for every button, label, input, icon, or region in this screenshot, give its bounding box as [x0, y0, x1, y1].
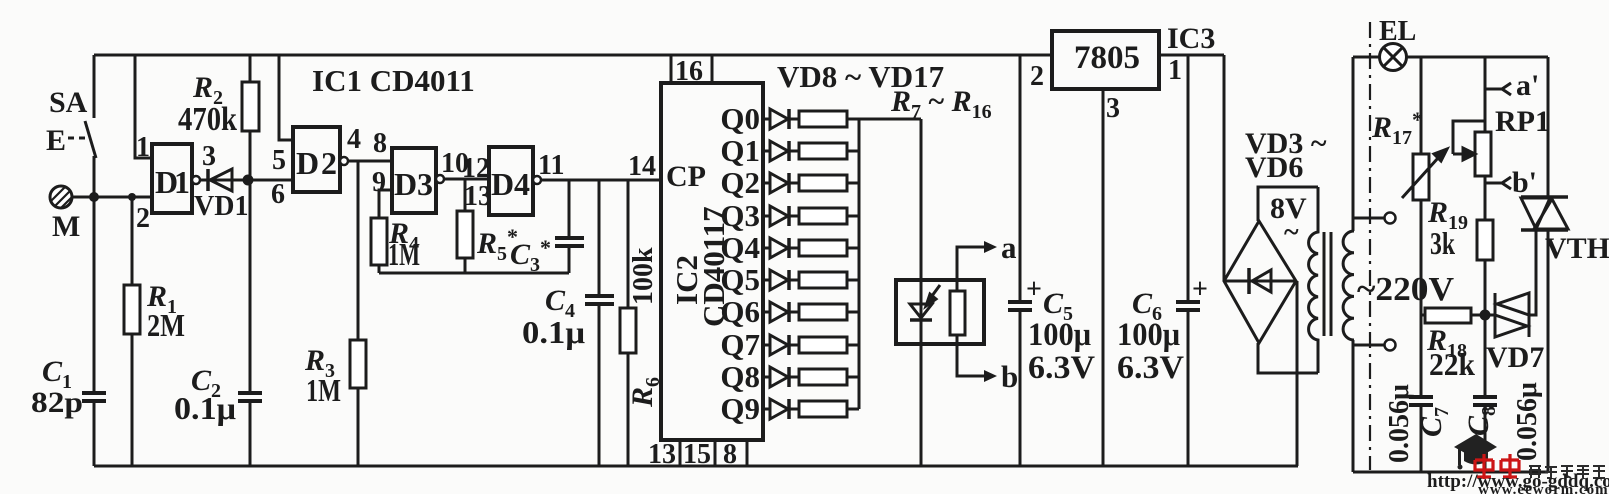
diode VD10 + resistor R9 row Q2	[763, 173, 859, 193]
wire: R17 bottom to R18 junction	[1420, 200, 1423, 397]
svg-text:VD1: VD1	[194, 191, 248, 222]
LED light arrow	[926, 285, 940, 306]
R17 adjust arrow	[1402, 149, 1447, 198]
wire: C6 column	[1187, 55, 1190, 302]
svg-text:~220V: ~220V	[1357, 271, 1454, 308]
wire: VTH column top	[1547, 57, 1550, 197]
gate D1	[152, 144, 192, 213]
wire: D2 pin6 from junction	[248, 179, 293, 182]
wire: C4 bottom	[598, 304, 601, 466]
opto photoresistor	[950, 291, 965, 335]
wire: E dashes	[68, 137, 86, 140]
svg-text:Q2: Q2	[720, 165, 760, 200]
svg-text:100k: 100k	[628, 247, 659, 305]
svg-text:100μ: 100μ	[1117, 317, 1180, 353]
wire: C4 stub	[598, 180, 601, 294]
wire: main bottom ground rail	[94, 465, 1298, 468]
capacitor C4	[585, 294, 614, 298]
svg-text:2M: 2M	[147, 307, 185, 343]
wire: R2 bottom to junction	[249, 131, 252, 180]
wire: R6 bottom	[627, 353, 630, 466]
diode VD16 + resistor R15 row Q8	[763, 367, 859, 387]
svg-text:4: 4	[347, 124, 361, 155]
svg-text:2: 2	[136, 203, 150, 234]
wire: bridge + output up to 5V line	[1223, 55, 1226, 281]
gate D3 output bubble	[436, 175, 444, 183]
diode VD8 + resistor R7 row Q0	[763, 109, 921, 129]
wire: RP1 bottom	[1484, 177, 1487, 220]
svg-text:3: 3	[202, 141, 216, 172]
RP1 wiper link	[1453, 121, 1485, 154]
terminal: plug top circle	[1385, 213, 1396, 224]
wire: VTH bottom	[1547, 230, 1550, 472]
wire: C7 bottom	[1420, 405, 1423, 472]
svg-text:6.3V: 6.3V	[1117, 350, 1184, 386]
wire: R1 bottom	[131, 334, 134, 466]
diode VD17 + resistor R16 row Q9	[763, 399, 859, 419]
wire: right section top rail	[1353, 56, 1548, 59]
resistor R17 (adjustable)	[1413, 154, 1429, 200]
svg-text:470k: 470k	[178, 101, 237, 138]
node: junction R18/VD7/C8	[1480, 310, 1491, 321]
svg-text:Q9: Q9	[720, 391, 760, 426]
resistor R4	[371, 218, 387, 265]
svg-text:CP: CP	[666, 160, 706, 193]
wire: D1 pin1 from VDD rail	[135, 55, 152, 158]
resistor R3	[350, 340, 366, 388]
wire: opto resistor bottom to b	[957, 335, 984, 376]
svg-text:b': b'	[1512, 166, 1537, 199]
gate D1 output bubble	[192, 176, 200, 184]
svg-text:1: 1	[136, 132, 150, 163]
svg-text:0.1μ: 0.1μ	[522, 314, 585, 350]
svg-text:SA: SA	[49, 86, 88, 119]
wire: R5 stub from D3-D4 wire	[464, 179, 467, 211]
capacitor C3 stub top	[568, 180, 571, 236]
wire: C3 bottom	[568, 246, 571, 273]
wire: C1 to ground rail	[93, 401, 96, 466]
wire: M to D1 pin2	[72, 196, 152, 199]
wire: junction down to C2	[249, 180, 252, 391]
svg-text:Q6: Q6	[720, 294, 760, 329]
bridge inner diode	[1224, 280, 1296, 283]
wire: C8 bottom	[1484, 405, 1487, 472]
svg-text:Q8: Q8	[720, 359, 760, 394]
resistor R1	[124, 285, 140, 334]
pin 15 stub	[714, 440, 717, 466]
svg-text:IC1 CD4011: IC1 CD4011	[312, 63, 475, 98]
resistor R18	[1421, 314, 1425, 317]
svg-text:a': a'	[1516, 69, 1539, 102]
switch SA blade	[85, 121, 96, 158]
op-amp IC2 CD40117 box	[661, 83, 763, 440]
diode VD14 + resistor R13 row Q6	[763, 302, 859, 322]
pin 13 stub	[679, 440, 682, 466]
gate D4	[489, 147, 533, 215]
wire: R6 stub	[627, 180, 630, 308]
bridge diamond	[1224, 221, 1296, 343]
svg-text:D4: D4	[491, 166, 530, 202]
wire: x=94 down to C1	[93, 197, 96, 391]
resistor R6	[620, 308, 636, 353]
svg-text:+: +	[1026, 274, 1042, 305]
diode VD12 + resistor R11 row Q4	[763, 238, 859, 258]
svg-text:RP1: RP1	[1495, 105, 1550, 138]
svg-text:M: M	[52, 210, 80, 243]
svg-text:16: 16	[675, 56, 703, 87]
wire: D3 out to D4 in	[444, 178, 489, 181]
wire: left edge vertical (SA column, x=94)	[93, 55, 96, 118]
svg-text:0.056μ: 0.056μ	[1384, 384, 1415, 463]
regulator IC3 7805	[1052, 31, 1159, 89]
diode VD13 + resistor R12 row Q5	[763, 270, 859, 290]
capacitor C7	[1409, 395, 1433, 399]
svg-text:13: 13	[648, 439, 676, 470]
svg-text:VD6: VD6	[1245, 151, 1303, 184]
svg-text:Q0: Q0	[720, 101, 760, 136]
wire: opto LED column from Q0 row down to ground	[920, 119, 923, 466]
wire: C2 to rail	[249, 401, 252, 466]
arrow b	[984, 370, 997, 382]
svg-text:EL: EL	[1379, 16, 1416, 47]
svg-text:1M: 1M	[306, 372, 341, 408]
transformer T secondary (on box right edge)	[1309, 187, 1318, 373]
svg-text:VD8 ~ VD17: VD8 ~ VD17	[777, 59, 944, 94]
svg-text:D3: D3	[394, 166, 433, 202]
node: junction VD1/R2/D2.6	[243, 175, 254, 186]
svg-text:1M: 1M	[388, 236, 420, 272]
node: junction R1	[128, 193, 136, 201]
svg-text:2: 2	[1030, 61, 1044, 92]
svg-text:9: 9	[372, 167, 386, 198]
potentiometer RP1	[1475, 132, 1491, 176]
LED in optocoupler	[910, 304, 932, 318]
terminal a' stub	[1485, 88, 1503, 91]
triac VTH	[1521, 197, 1568, 230]
svg-text:Q3: Q3	[720, 198, 760, 233]
svg-text:Q1: Q1	[720, 133, 760, 168]
svg-text:Q5: Q5	[720, 262, 760, 297]
capacitor C3	[555, 236, 584, 240]
svg-text:0.1μ: 0.1μ	[174, 390, 236, 426]
wire: D4 out to IC2 CP	[541, 179, 661, 182]
transformer core	[1323, 232, 1326, 336]
svg-text:6: 6	[271, 179, 285, 210]
svg-text:a: a	[1001, 230, 1017, 265]
wire: R1 top	[131, 197, 134, 285]
wire: SA to M junction	[93, 156, 96, 197]
wire: R17 column top	[1420, 57, 1423, 154]
svg-text:+: +	[1192, 274, 1208, 305]
wire: R3 from D2-D3 wire down	[357, 161, 360, 340]
wire: R19 bottom to junction	[1484, 260, 1487, 397]
gate D2 output bubble	[340, 157, 348, 165]
wire: RP1 column from rail	[1484, 57, 1487, 133]
terminal b' stub	[1485, 182, 1503, 185]
terminal M hatched circle	[44, 179, 82, 222]
svg-text:14: 14	[628, 151, 656, 182]
capacitor C5	[1008, 300, 1032, 304]
watermark red chars	[1475, 454, 1519, 479]
wire: VD7 to triac gate	[1529, 230, 1536, 315]
svg-text:VD7: VD7	[1486, 341, 1544, 374]
capacitor C6	[1176, 300, 1200, 304]
wire: left edge of right section / primary column	[1352, 57, 1355, 231]
transformer T primary winding	[1343, 231, 1354, 340]
svg-text:82p: 82p	[31, 386, 83, 419]
svg-text:100μ: 100μ	[1028, 317, 1091, 353]
terminal: plug bottom circle	[1385, 340, 1396, 351]
diode VD11 + resistor R10 row Q3	[763, 206, 859, 226]
wire: D2 out to D3 pin8	[348, 160, 392, 163]
node: junction SA/M	[89, 192, 99, 202]
pin 8 stub	[746, 440, 749, 466]
svg-text:6.3V: 6.3V	[1028, 350, 1095, 386]
svg-text:11: 11	[538, 150, 564, 181]
wire: 7805 pin3 to ground	[1102, 89, 1105, 466]
gate D3	[392, 148, 436, 213]
wire: mains plug top stub	[1353, 217, 1384, 220]
svg-text:1: 1	[1168, 55, 1182, 86]
resistor R2	[242, 82, 259, 131]
wire: 7805 pin1 output	[1159, 54, 1224, 57]
wire: R4 bottom to feedback	[378, 265, 381, 273]
wire: mains plug bottom stub	[1353, 344, 1384, 347]
svg-text:~: ~	[1284, 217, 1299, 248]
capacitor C1	[82, 391, 106, 395]
wire: feedback wire	[379, 272, 569, 275]
diode VD1	[200, 179, 248, 182]
svg-text:b: b	[1001, 359, 1018, 394]
svg-text:5: 5	[272, 145, 286, 176]
wire: R3 bottom	[357, 388, 360, 466]
svg-text:VTH: VTH	[1545, 232, 1609, 265]
bridge rectifier VD3~VD6 outline box	[1258, 187, 1318, 221]
wire: resistor bus vertical	[858, 119, 861, 409]
capacitor C2	[238, 391, 262, 395]
svg-text:3k: 3k	[1430, 225, 1455, 261]
resistor R5	[457, 211, 473, 258]
svg-text:IC3: IC3	[1167, 22, 1215, 55]
svg-text:Q4: Q4	[720, 230, 760, 265]
svg-text:Q7: Q7	[720, 327, 760, 362]
svg-text:E: E	[46, 124, 66, 157]
wire: bridge - output down to ground	[1296, 281, 1299, 466]
svg-text:www.eeworm.com: www.eeworm.com	[1478, 482, 1609, 494]
boundary dash-dot line	[1369, 22, 1371, 470]
capacitor C8	[1473, 395, 1497, 399]
resistor R19	[1477, 220, 1493, 260]
wire: D3 pin9 jog to R4	[379, 190, 392, 218]
arrow a	[984, 241, 997, 253]
watermark graduation cap	[1454, 434, 1497, 470]
svg-text:22k: 22k	[1429, 346, 1475, 382]
gate D4 output bubble	[533, 176, 541, 184]
diac VD7	[1495, 293, 1529, 337]
gate D2	[293, 127, 340, 192]
wire: R2 top from rail	[249, 55, 252, 82]
wire: D2 pin5 from rail	[279, 55, 293, 140]
diode VD9 + resistor R8 row Q1	[763, 141, 859, 161]
svg-text:3: 3	[1106, 93, 1120, 124]
svg-text:15: 15	[683, 439, 711, 470]
lamp EL	[1380, 44, 1407, 71]
optocoupler U box	[896, 280, 984, 344]
svg-text:8: 8	[723, 439, 737, 470]
wire: main top VDD rail	[94, 54, 1052, 57]
svg-text:7805: 7805	[1074, 40, 1140, 76]
pin 16 stub box	[670, 55, 673, 83]
watermark black chars	[1529, 466, 1605, 478]
svg-text:D2: D2	[296, 145, 337, 181]
wire: right section bottom rail	[1353, 471, 1548, 474]
diode VD15 + resistor R14 row Q7	[763, 335, 859, 355]
wire: opto resistor top to a	[957, 247, 984, 291]
wire: C5 column from rail	[1019, 55, 1022, 302]
svg-text:0.056μ: 0.056μ	[1512, 382, 1543, 461]
wire: R5 bottom to feedback	[464, 258, 467, 273]
svg-text:D1: D1	[155, 164, 190, 200]
svg-text:8: 8	[373, 128, 387, 159]
